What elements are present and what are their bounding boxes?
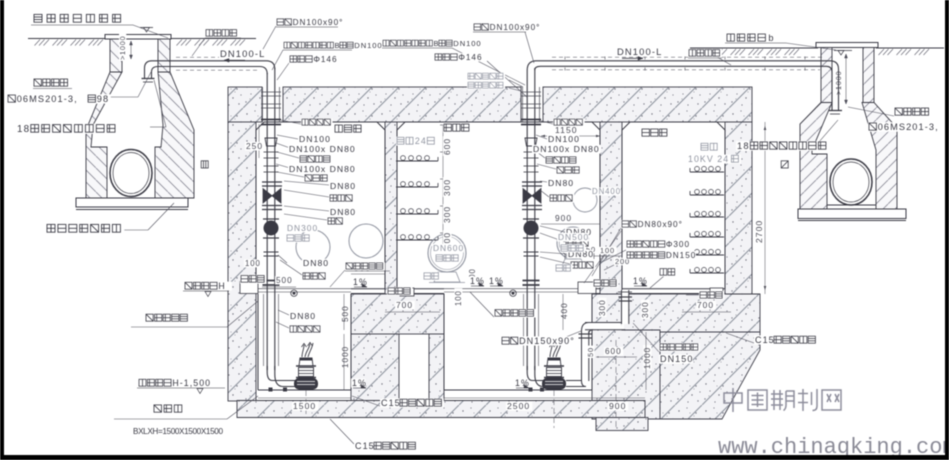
east manhole base slab (798, 209, 906, 219)
svg-text:300: 300 (598, 299, 607, 316)
svg-text:98: 98 (97, 94, 109, 104)
dimension lines and texts (258, 124, 260, 158)
svg-text:DN80: DN80 (303, 258, 329, 268)
svg-text:DN150: DN150 (660, 354, 693, 364)
sump pit 2 walls and floor (443, 294, 445, 390)
west manhole body left wall (86, 72, 122, 198)
wall between water and power chamber (600, 122, 622, 330)
riser R2 sleeve below floor (523, 294, 525, 366)
casing spacer ticks east run (564, 57, 566, 60)
east manhole body right wall (862, 103, 897, 210)
spare sleeve circle right of gas chamber (349, 224, 383, 258)
water pipe DN600 cross-section (428, 234, 466, 272)
riser R1 casing through roof with preformed hole (262, 87, 264, 122)
riser R1 tee and fitting ticks (264, 151, 279, 153)
vent pipe DN300 cross-section (grey) (296, 230, 330, 264)
riser R2 bottom elbow to pump P2 (535, 366, 546, 387)
svg-text:1%: 1% (633, 276, 648, 286)
west manhole neck walls (110, 39, 122, 72)
svg-text:DN150x90°: DN150x90° (519, 336, 575, 346)
floor slab under power chamber (622, 294, 760, 332)
sump pit 1 walls and floor (257, 294, 259, 390)
riser R2 casing ticks above roof (521, 91, 541, 93)
svg-text:DN100: DN100 (453, 39, 481, 48)
grating cover over pit1 (258, 288, 351, 290)
svg-text:1%: 1% (489, 276, 504, 286)
svg-text:400: 400 (560, 302, 569, 319)
svg-text:>1000: >1000 (118, 36, 127, 61)
svg-text:06MS201-3,: 06MS201-3, (878, 122, 939, 132)
svg-text:DN100x DN80: DN100x DN80 (289, 164, 356, 174)
svg-text:DN100x DN80: DN100x DN80 (289, 144, 356, 154)
svg-text:500: 500 (341, 305, 350, 322)
leader lines for annotations (133, 25, 168, 38)
submersible pump P2 (543, 343, 566, 390)
svg-text:600: 600 (605, 347, 622, 356)
drain channel water chamber east end (578, 282, 596, 294)
svg-text:DN500: DN500 (558, 232, 589, 242)
east manhole interior floor (827, 204, 876, 206)
east manhole body left wall (800, 103, 832, 210)
pipe saddle feet at elbow R2 (529, 388, 533, 392)
drain pipe DN150 elbow up to power chamber floor (622, 290, 629, 324)
riser pipe R1 vertical body (263, 88, 279, 122)
svg-text:DN400: DN400 (592, 187, 621, 196)
svg-text:100: 100 (245, 259, 261, 268)
riser R1 flexible joint above floor (263, 280, 280, 282)
svg-text:1500: 1500 (293, 401, 316, 411)
svg-text:b: b (768, 33, 774, 43)
svg-text:2500: 2500 (507, 401, 530, 411)
east manhole neck walls (821, 48, 832, 103)
riser R1 lower flange ticks (264, 251, 279, 253)
svg-text:DN80: DN80 (290, 311, 316, 321)
svg-text:DN80x90°: DN80x90° (638, 220, 683, 229)
svg-text:Φ146: Φ146 (458, 53, 482, 62)
svg-text:C15: C15 (355, 441, 375, 451)
svg-text:250: 250 (246, 141, 263, 151)
support under DN600 (434, 272, 460, 282)
sleeve circle in wall B (573, 188, 597, 212)
centerline near drain pipe (615, 340, 617, 428)
drain channel gas chamber west end (240, 282, 258, 294)
svg-text:DN100-L: DN100-L (617, 46, 662, 57)
svg-text:H-1,500: H-1,500 (172, 378, 211, 388)
bottom slab band under sump pits (237, 401, 645, 418)
tunnel east wall (725, 122, 752, 294)
black bar bottom edge (0, 455, 949, 460)
step mass right of sump pit 2 (592, 294, 660, 419)
pipe elbow down into east manhole (830, 61, 839, 110)
svg-text:700: 700 (697, 300, 714, 310)
svg-text:18: 18 (17, 124, 30, 135)
dimension >1000 east manhole (845, 54, 847, 104)
svg-text:1%: 1% (470, 276, 485, 286)
svg-text:300: 300 (641, 301, 650, 318)
pump P2 centerline (553, 390, 555, 428)
riser R1 gate valve (dark bowtie) (263, 189, 281, 204)
dimension >1000 west manhole (130, 41, 132, 59)
svg-text:300: 300 (442, 206, 452, 223)
svg-text:300: 300 (442, 179, 452, 196)
wall between gas and comm chamber (385, 122, 397, 294)
svg-text:100: 100 (454, 290, 463, 306)
svg-text:DN100: DN100 (299, 134, 331, 144)
svg-text:DN100x DN80: DN100x DN80 (533, 144, 600, 154)
drain channel power chamber east end (710, 288, 723, 296)
svg-text:DN100-L: DN100-L (220, 48, 265, 59)
riser R1 check valve (dark circle) (264, 221, 278, 235)
svg-text:600: 600 (442, 138, 452, 155)
elevation marker east manhole top (834, 50, 852, 52)
annotation texts (33, 14, 127, 24)
west manhole base slab (76, 198, 188, 207)
pipe saddle feet at elbow R1 (269, 388, 273, 392)
floor lines power chamber (622, 288, 725, 290)
drain pipe DN150 vertical segment in pit2 (582, 331, 589, 383)
west manhole pipe circle (110, 150, 152, 197)
svg-text:2700: 2700 (754, 220, 764, 243)
svg-text:DN80: DN80 (330, 207, 356, 217)
pump P1 centerline (305, 390, 307, 416)
svg-text:1000: 1000 (643, 347, 652, 369)
power chamber outline (622, 122, 725, 289)
svg-text:18: 18 (737, 140, 750, 151)
riser R2 reducer DN100xDN80 (525, 138, 537, 146)
riser R1 casing ticks above roof (261, 91, 281, 93)
pipe west horizontal run DN100-L (152, 61, 275, 70)
floor lines water chamber (397, 288, 444, 290)
water/comm chamber outline (397, 122, 600, 289)
foundation mass bottom right (diagonal cut at watermark) (660, 332, 760, 419)
svg-text:1%: 1% (352, 378, 367, 388)
riser R2 fitting ticks (524, 151, 539, 153)
riser R2 casing through roof (522, 87, 524, 122)
riser R2 flexible joint (521, 119, 541, 121)
power chamber cable trays (690, 171, 724, 173)
svg-text:1000: 1000 (341, 346, 350, 368)
east manhole cover (816, 43, 878, 48)
svg-text:900: 900 (555, 213, 572, 223)
submersible pump P1 (295, 343, 318, 390)
svg-text:50: 50 (586, 347, 595, 357)
svg-text:24: 24 (415, 136, 427, 146)
riser R1 bottom elbow to pump P1 (275, 366, 296, 387)
svg-text:BXLXH=1500X1500X1500: BXLXH=1500X1500X1500 (133, 427, 223, 436)
tunnel west wall (228, 122, 256, 401)
svg-text:700: 700 (396, 300, 413, 310)
small drain funnel at floor near R1 (291, 290, 297, 296)
black bar left edge (0, 0, 4, 460)
ground line right of east manhole (876, 47, 944, 49)
riser R1 sleeve below floor (263, 294, 265, 366)
svg-text:Φ146: Φ146 (313, 55, 337, 64)
drain pipe DN150 horizontal segment through step wall (585, 323, 624, 330)
svg-text:06MS201-3,: 06MS201-3, (17, 94, 78, 104)
ground line right of west manhole (170, 38, 256, 40)
ground line left of west manhole (28, 38, 107, 40)
pipe casing dashes west run (176, 56, 262, 58)
pipe elbow down into west manhole (145, 61, 153, 78)
watermark zhongguo qikan wang (drawn strokes) (724, 388, 841, 412)
west manhole interior floor (107, 197, 155, 199)
svg-text:DN100: DN100 (548, 134, 580, 144)
svg-text:DN150: DN150 (666, 251, 696, 260)
svg-text:DN80: DN80 (330, 181, 356, 191)
svg-text:100: 100 (600, 246, 615, 255)
grating cover over pit2 (444, 288, 592, 290)
svg-text:DN80: DN80 (548, 178, 574, 188)
drain pipe DN150 flanges near floor (619, 296, 633, 298)
svg-text:DN100x90°: DN100x90° (490, 23, 541, 32)
svg-text:C15: C15 (381, 398, 401, 408)
drain pipe DN150 flanges (579, 333, 593, 335)
comm chamber cable trays (tong xin 24 holes) (396, 160, 438, 162)
drain channel under comm trays (400, 288, 414, 296)
riser R1 reducer DN100xDN80 (265, 138, 277, 146)
riser pipe R2 vertical body (523, 88, 539, 122)
riser R2 gate valve (dark bowtie) (523, 189, 541, 204)
floor lines gas chamber (351, 288, 385, 290)
soil hatch marks left ground (35, 40, 41, 46)
svg-text:1%: 1% (515, 378, 530, 388)
svg-text:C15: C15 (755, 335, 775, 345)
svg-text:DN100x90°: DN100x90° (293, 18, 344, 27)
svg-text:DN300: DN300 (287, 223, 318, 233)
riser R2 flange pair (522, 181, 542, 183)
west manhole cover (105, 35, 171, 40)
svg-text:900: 900 (609, 401, 626, 411)
soil hatch marks right ground (695, 49, 701, 55)
pipe east horizontal run DN100-L (537, 60, 831, 62)
svg-text:Φ300: Φ300 (666, 240, 690, 249)
svg-text:500: 500 (276, 276, 293, 285)
riser R2 check valve (dark circle) (524, 221, 538, 235)
elevation marker west ground (140, 27, 153, 29)
svg-text:DN600: DN600 (433, 243, 464, 253)
svg-text:10KV 24: 10KV 24 (688, 154, 729, 164)
drain pipe DN150 segment from pump P2 (566, 381, 582, 387)
riser R1 flexible joint (261, 119, 281, 121)
middle mass between sump pits (351, 294, 444, 334)
black bar right edge (945, 0, 949, 460)
water pipe DN500 cross-section (557, 227, 589, 259)
riser R1 flange pair (262, 181, 282, 183)
support under DN500 (561, 259, 585, 268)
ground line left of east manhole (690, 47, 818, 49)
west manhole body right wall (155, 72, 194, 198)
svg-text:H: H (218, 281, 225, 291)
pipe casing dashes east run (552, 56, 824, 58)
svg-text:DN100: DN100 (354, 41, 382, 50)
gas chamber outline (256, 122, 385, 289)
deepened block under pit2 drain (596, 418, 648, 431)
small drain funnel at floor near R2 (510, 290, 516, 296)
east manhole pipe circle (830, 159, 872, 205)
tunnel roof slab (hatched concrete) (228, 87, 262, 122)
riser R2 lower flange ticks (524, 251, 539, 253)
svg-text:1%: 1% (353, 277, 368, 287)
riser R2 flexible joint above floor (523, 280, 540, 282)
